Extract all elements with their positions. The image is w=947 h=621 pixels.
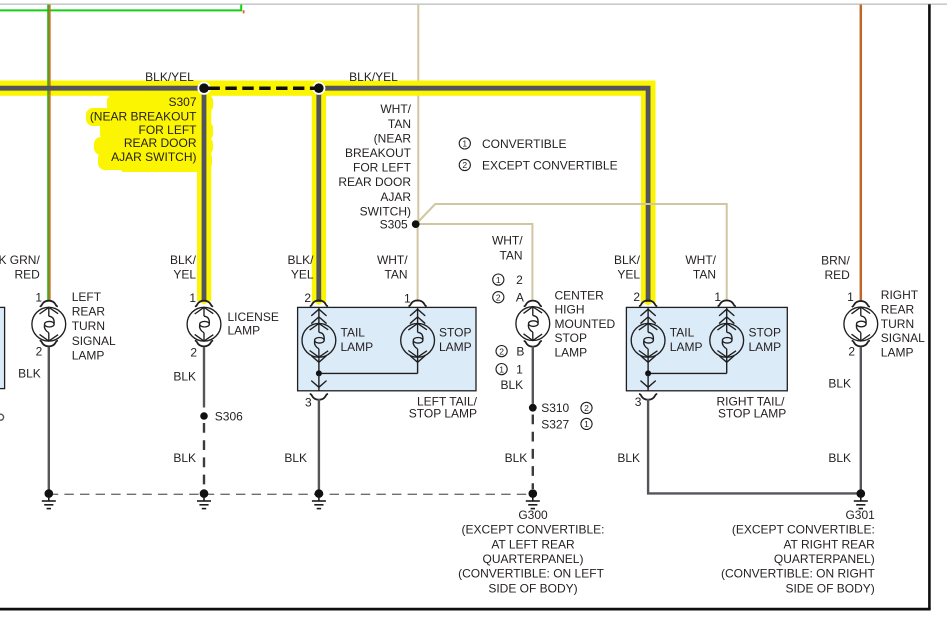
svg-text:WHT/: WHT/ xyxy=(377,253,408,267)
svg-text:BLK/YEL: BLK/YEL xyxy=(349,70,398,84)
svg-text:2: 2 xyxy=(36,345,43,359)
svg-text:LAMP: LAMP xyxy=(72,348,105,362)
highlight: yellow band over BLK/YEL horizontal run xyxy=(0,81,656,96)
svg-text:RIGHT: RIGHT xyxy=(881,288,919,302)
svg-text:TAIL: TAIL xyxy=(670,326,695,340)
node: splice S307 xyxy=(199,83,209,93)
svg-text:BLK/: BLK/ xyxy=(614,253,641,267)
lamp: TAIL LAMP inside right box xyxy=(631,300,665,373)
ground: left tail/stop lamp xyxy=(312,489,326,508)
wire: dashed BLK from S306 to ground xyxy=(203,423,205,490)
svg-text:SIDE OF BODY): SIDE OF BODY) xyxy=(488,581,577,595)
lamp: STOP LAMP inside right box xyxy=(710,300,744,373)
svg-text:1: 1 xyxy=(499,364,504,374)
svg-text:LAMP: LAMP xyxy=(670,340,703,354)
wire: dashed BLK/YEL segment between S307 and junction xyxy=(209,86,316,90)
highlight: yellow band over BLK/YEL vertical to left tail/stop lamp pin 2 xyxy=(312,84,326,302)
svg-text:YEL: YEL xyxy=(617,267,640,281)
svg-text:2: 2 xyxy=(633,290,640,304)
node: splice S305 xyxy=(412,220,420,228)
svg-text:2: 2 xyxy=(584,403,589,413)
wire: BLK/YEL vertical to left tail/stop lamp pin 2 (gray core) xyxy=(316,88,321,302)
lamp box: RIGHT TAIL/STOP LAMP xyxy=(626,307,787,390)
wire: dashed ground interconnect xyxy=(49,493,533,495)
svg-text:1: 1 xyxy=(847,290,854,304)
svg-text:2: 2 xyxy=(496,292,501,302)
svg-text:BLK: BLK xyxy=(828,451,851,465)
svg-text:1: 1 xyxy=(584,419,589,429)
svg-text:AJAR SWITCH): AJAR SWITCH) xyxy=(111,150,196,164)
lamp: STOP LAMP inside left box xyxy=(401,300,435,373)
svg-text:BLK: BLK xyxy=(828,377,851,391)
wire: BLK/YEL horizontal right segment with corner down to right tail/stop lamp xyxy=(319,88,648,302)
svg-text:TAN: TAN xyxy=(384,267,407,281)
svg-text:1: 1 xyxy=(189,291,196,305)
svg-text:CONVERTIBLE: CONVERTIBLE xyxy=(482,137,566,151)
label: WHT/TAN at CHMSL xyxy=(492,233,523,262)
svg-text:BLK: BLK xyxy=(505,451,528,465)
svg-text:EXCEPT CONVERTIBLE: EXCEPT CONVERTIBLE xyxy=(482,159,618,173)
wire: WHT/TAN from S305 to center high mounted stop lamp xyxy=(419,224,532,302)
label: BLK/YEL at license lamp drop xyxy=(170,253,197,282)
svg-text:B: B xyxy=(516,345,524,359)
label: TAIL LAMP (left box) xyxy=(341,326,374,355)
svg-text:MOUNTED: MOUNTED xyxy=(555,317,616,331)
svg-text:BREAKOUT: BREAKOUT xyxy=(345,146,412,160)
svg-text:AT RIGHT REAR: AT RIGHT REAR xyxy=(783,537,875,551)
svg-text:LAMP: LAMP xyxy=(439,340,472,354)
label: S327 with circled 1 xyxy=(541,417,592,431)
label: box name LEFT TAIL/STOP LAMP xyxy=(409,394,478,420)
wire: WHT/TAN from S305 down to left stop lamp pin 1 xyxy=(417,226,419,302)
label: WHT/TAN at right box pin 1 xyxy=(685,253,716,282)
wire: DK GRN/RED vertical to left rear turn signal lamp (green stripe) xyxy=(47,5,49,302)
svg-text:WHT/: WHT/ xyxy=(685,253,716,267)
wire: internal link stop lamp to tail lamp (right box) xyxy=(648,372,727,374)
label: component name LEFT REAR TURN SIGNAL LAMP xyxy=(72,290,116,362)
svg-text:S305: S305 xyxy=(380,217,408,231)
label: STOP LAMP (right box) xyxy=(749,326,782,355)
node: small circle at left edge xyxy=(0,414,4,420)
svg-text:2: 2 xyxy=(499,346,504,356)
svg-text:1: 1 xyxy=(462,139,467,149)
svg-text:FOR LEFT: FOR LEFT xyxy=(138,123,197,137)
wire: WHT/TAN vertical from top to S305 xyxy=(417,5,419,225)
wire: BLK/YEL horizontal left segment (gray core) xyxy=(0,86,204,91)
frame: right border xyxy=(928,4,931,609)
svg-text:S306: S306 xyxy=(215,410,243,424)
svg-text:BLK/: BLK/ xyxy=(170,253,197,267)
svg-text:TAN: TAN xyxy=(388,117,411,131)
svg-text:TURN: TURN xyxy=(881,317,914,331)
svg-text:2: 2 xyxy=(516,273,523,287)
svg-text:RED: RED xyxy=(824,268,850,282)
svg-text:(EXCEPT CONVERTIBLE:: (EXCEPT CONVERTIBLE: xyxy=(462,523,605,537)
svg-text:STOP: STOP xyxy=(439,326,471,340)
svg-text:REAR DOOR: REAR DOOR xyxy=(124,136,197,150)
wire: DK GRN/RED overlay across yellow band xyxy=(47,81,49,96)
svg-text:S327: S327 xyxy=(541,417,569,431)
svg-text:LAMP: LAMP xyxy=(749,340,782,354)
svg-text:AJAR: AJAR xyxy=(380,190,411,204)
svg-text:K GRN/: K GRN/ xyxy=(0,253,40,267)
legend: circled 1 CONVERTIBLE xyxy=(459,137,566,151)
svg-text:1: 1 xyxy=(516,363,523,377)
svg-text:LAMP: LAMP xyxy=(341,340,374,354)
svg-text:3: 3 xyxy=(305,396,312,410)
label: WHT/TAN S305 note xyxy=(338,102,411,231)
wire: BLK from center high mounted stop lamp to S310 xyxy=(532,346,534,403)
svg-text:(CONVERTIBLE: ON LEFT: (CONVERTIBLE: ON LEFT xyxy=(458,567,604,581)
svg-text:BLK/: BLK/ xyxy=(287,253,314,267)
wire: BLK from left box pin 3 to ground xyxy=(318,399,320,491)
wire: BLK/YEL vertical from S307 to license lamp (gray core) xyxy=(202,88,207,301)
label: DK GRN/RED wire xyxy=(0,253,40,282)
label: STOP LAMP (left box) xyxy=(439,326,472,355)
svg-text:LAMP: LAMP xyxy=(881,345,914,359)
svg-text:REAR: REAR xyxy=(72,305,106,319)
svg-text:TAN: TAN xyxy=(499,248,522,262)
highlight: yellow band over BLK/YEL vertical at S307 xyxy=(197,84,211,301)
lamp U3: CENTER HIGH MOUNTED STOP LAMP xyxy=(516,301,550,347)
svg-text:TAIL: TAIL xyxy=(341,326,366,340)
svg-text:BLK: BLK xyxy=(173,369,196,383)
node: splice S310/S327 xyxy=(529,404,537,412)
svg-text:BLK: BLK xyxy=(617,451,640,465)
label: S310 with circled 2 xyxy=(541,401,592,415)
node: junction dot in left box xyxy=(316,370,322,376)
svg-text:G300: G300 xyxy=(518,508,548,522)
label: G301 ground note xyxy=(721,508,875,596)
lamp U4: RIGHT REAR TURN SIGNAL LAMP xyxy=(844,301,878,346)
svg-text:WHT/: WHT/ xyxy=(380,102,411,116)
svg-text:LAMP: LAMP xyxy=(228,324,261,338)
node: splice S306 xyxy=(200,412,208,420)
wire: green circuit stub top-left xyxy=(0,5,241,11)
svg-text:BLK: BLK xyxy=(18,366,41,380)
label: box name RIGHT TAIL/STOP LAMP xyxy=(716,394,786,420)
svg-text:QUARTERPANEL): QUARTERPANEL) xyxy=(774,552,875,566)
label: TAIL LAMP (right box) xyxy=(670,326,703,355)
label: BRN/RED wire xyxy=(821,253,850,282)
svg-text:FOR LEFT: FOR LEFT xyxy=(353,161,412,175)
svg-text:STOP LAMP: STOP LAMP xyxy=(409,407,477,421)
wire: dashed BLK from S310 to ground G300 xyxy=(532,415,534,490)
svg-text:QUARTERPANEL): QUARTERPANEL) xyxy=(483,552,584,566)
ground G301 xyxy=(854,489,868,508)
wire: BLK ground wire from left rear turn signal lamp xyxy=(48,347,50,492)
svg-text:SWITCH): SWITCH) xyxy=(360,204,411,218)
wire: BRN/RED vertical to right rear turn signal lamp xyxy=(860,5,863,302)
ground G300 xyxy=(526,489,540,508)
svg-text:1: 1 xyxy=(35,290,42,304)
frame: bottom border xyxy=(0,608,931,611)
svg-text:STOP: STOP xyxy=(555,331,587,345)
svg-text:2: 2 xyxy=(190,346,197,360)
svg-text:YEL: YEL xyxy=(291,267,314,281)
svg-text:S307: S307 xyxy=(168,95,196,109)
svg-text:1: 1 xyxy=(714,290,721,304)
label: component name LICENSE LAMP xyxy=(228,310,279,338)
svg-text:BLK: BLK xyxy=(284,451,307,465)
svg-text:(NEAR BREAKOUT: (NEAR BREAKOUT xyxy=(90,109,197,123)
label: BLK/YEL at left box pin 2 xyxy=(287,253,314,282)
pin label circled2 A at CHMSL xyxy=(493,291,524,305)
node: white rings around splice dots xyxy=(197,82,210,95)
svg-text:SIDE OF BODY): SIDE OF BODY) xyxy=(785,581,874,595)
svg-text:G301: G301 xyxy=(845,508,875,522)
label: G300 ground note xyxy=(458,508,604,596)
svg-text:1: 1 xyxy=(496,275,501,285)
svg-text:YEL: YEL xyxy=(173,267,196,281)
svg-text:RED: RED xyxy=(14,267,40,281)
svg-text:STOP LAMP: STOP LAMP xyxy=(718,407,786,421)
label: S307 splice note xyxy=(90,95,197,164)
pin label circled1 2 at CHMSL xyxy=(493,273,523,287)
ground: left rear turn signal lamp xyxy=(42,489,56,508)
highlight: yellow band over BLK/YEL right vertical (to right tail/stop lamp pin 2) xyxy=(641,81,656,303)
wire: orange tick at green corner xyxy=(243,10,245,13)
svg-text:BLK/YEL: BLK/YEL xyxy=(145,70,194,84)
svg-text:AT LEFT REAR: AT LEFT REAR xyxy=(491,537,575,551)
svg-text:SIGNAL: SIGNAL xyxy=(881,331,925,345)
svg-text:(EXCEPT CONVERTIBLE:: (EXCEPT CONVERTIBLE: xyxy=(732,523,875,537)
connector: partial box of another lamp at left image edge xyxy=(0,307,5,388)
wire: BLK from right box pin 3 to ground G301 xyxy=(648,399,861,493)
svg-text:REAR: REAR xyxy=(881,303,915,317)
label: WHT/TAN at left box pin 1 xyxy=(377,253,408,282)
svg-text:A: A xyxy=(516,291,524,305)
lamp: TAIL LAMP inside left box xyxy=(302,300,336,373)
svg-text:2: 2 xyxy=(304,291,311,305)
svg-text:2: 2 xyxy=(848,344,855,358)
svg-text:CENTER: CENTER xyxy=(555,289,605,303)
svg-text:S310: S310 xyxy=(541,401,569,415)
wire: BLK from right rear turn signal lamp to ground G301 xyxy=(860,347,862,494)
pin label circled2 B at CHMSL bottom xyxy=(496,345,524,359)
wire: unrelated circuit top horizontal (light gray) xyxy=(0,3,947,5)
svg-text:STOP: STOP xyxy=(749,326,781,340)
svg-text:TURN: TURN xyxy=(72,319,105,333)
label: component name RIGHT REAR TURN SIGNAL LAMP xyxy=(881,288,925,359)
highlight: highlighter blob behind S307 note text xyxy=(86,95,213,172)
svg-text:(CONVERTIBLE: ON RIGHT: (CONVERTIBLE: ON RIGHT xyxy=(721,567,875,581)
svg-text:1: 1 xyxy=(404,292,411,306)
lamp U1: LEFT REAR TURN SIGNAL LAMP xyxy=(32,301,66,347)
svg-text:WHT/: WHT/ xyxy=(492,233,523,247)
svg-text:BLK: BLK xyxy=(173,451,196,465)
svg-text:LAMP: LAMP xyxy=(555,345,588,359)
label: BLK/YEL at right box pin 2 xyxy=(614,253,641,282)
wire: WHT/TAN from S305 to right stop lamp pin 1 xyxy=(419,204,727,302)
label: component name CENTER HIGH MOUNTED STOP LAMP xyxy=(555,289,616,360)
svg-text:(NEAR: (NEAR xyxy=(374,131,412,145)
svg-text:2: 2 xyxy=(462,160,467,170)
node: junction of BLK/YEL at left tail lamp drop xyxy=(314,83,324,93)
lamp box: LEFT TAIL/STOP LAMP xyxy=(298,307,476,390)
svg-text:HIGH: HIGH xyxy=(555,303,585,317)
svg-text:BLK: BLK xyxy=(501,378,524,392)
wire: left box pin 3 exit xyxy=(318,373,320,390)
wire: right box pin 3 exit xyxy=(647,373,649,390)
svg-text:REAR DOOR: REAR DOOR xyxy=(338,175,411,189)
wire: DK GRN/RED vertical (red stripe) xyxy=(49,5,51,302)
wire: BLK from license lamp to S306 xyxy=(203,347,205,408)
svg-text:LEFT: LEFT xyxy=(72,290,102,304)
svg-text:LICENSE: LICENSE xyxy=(228,310,279,324)
wire: internal link stop lamp to tail lamp (left box) xyxy=(319,372,418,374)
ground: license lamp xyxy=(197,489,211,508)
svg-text:BRN/: BRN/ xyxy=(821,253,850,267)
node: junction dot in right box xyxy=(645,370,651,376)
legend: circled 2 EXCEPT CONVERTIBLE xyxy=(459,159,617,173)
lamp U2: LICENSE LAMP xyxy=(187,301,221,347)
svg-text:3: 3 xyxy=(635,395,642,409)
pin label circled1 1 at CHMSL bottom xyxy=(496,363,523,377)
svg-text:SIGNAL: SIGNAL xyxy=(72,334,116,348)
svg-text:TAN: TAN xyxy=(693,267,716,281)
